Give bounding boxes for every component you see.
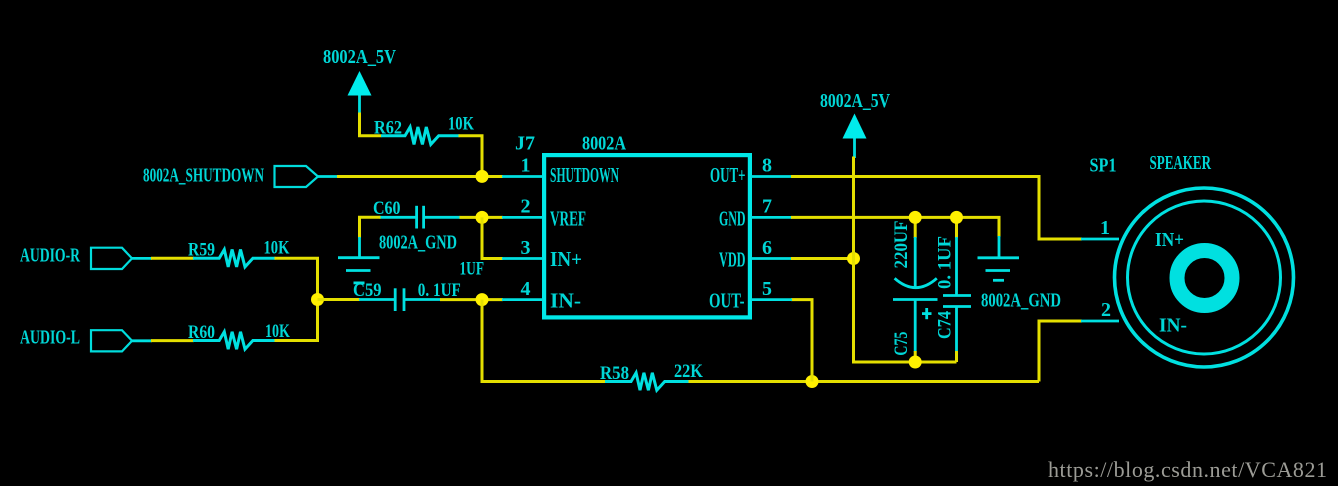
svg-text:OUT+: OUT+	[710, 163, 746, 187]
svg-text:C75: C75	[891, 332, 912, 356]
resistor R62	[381, 127, 460, 144]
svg-text:R59: R59	[188, 240, 215, 261]
wire pin 5 down to OUT- net	[791, 300, 812, 382]
wire pin2 junction down to pin 3	[482, 217, 503, 258]
svg-text:OUT-: OUT-	[709, 289, 745, 313]
svg-text:8: 8	[762, 155, 772, 177]
svg-text:8002A_GND: 8002A_GND	[379, 232, 457, 254]
pin 1 SHUTDOWN	[502, 155, 619, 187]
svg-text:R62: R62	[374, 118, 402, 139]
svg-text:AUDIO-L: AUDIO-L	[20, 327, 80, 349]
svg-text:SP1: SP1	[1090, 155, 1117, 177]
speaker SP1	[1115, 188, 1294, 367]
capacitor C74 (0.1UF)	[943, 217, 971, 362]
junction OUT- / R58 node	[806, 375, 819, 388]
svg-text:1: 1	[521, 155, 531, 177]
svg-text:https://blog.csdn.net/VCA821: https://blog.csdn.net/VCA821	[1048, 457, 1327, 482]
wire GND net pin 7 to right ground	[791, 217, 999, 237]
svg-text:SHUTDOWN: SHUTDOWN	[550, 163, 619, 187]
svg-text:VREF: VREF	[550, 207, 586, 231]
svg-text:VDD: VDD	[719, 248, 746, 272]
svg-text:8002A_GND: 8002A_GND	[981, 290, 1061, 312]
svg-text:8002A_5V: 8002A_5V	[820, 90, 890, 112]
svg-text:7: 7	[762, 196, 772, 218]
svg-text:220UF: 220UF	[891, 221, 912, 269]
svg-text:C74: C74	[935, 311, 956, 339]
wire C59 to pin 4	[440, 298, 503, 301]
wire R60 to audio junction	[275, 300, 318, 341]
wire OUT- net to speaker pin 2	[1039, 321, 1082, 382]
junction at pin 4 wire	[476, 293, 489, 306]
svg-text:0. 1UF: 0. 1UF	[418, 280, 461, 301]
junction VDD node	[847, 252, 860, 265]
port 8002A_SHUTDOWN	[275, 166, 339, 187]
wire SHUTDOWN net to pin 1	[337, 175, 503, 178]
svg-text:3: 3	[521, 237, 531, 259]
svg-text:10K: 10K	[448, 114, 474, 135]
wire AUDIO-R to R59	[151, 257, 194, 260]
svg-text:IN-: IN-	[550, 289, 581, 313]
resistor R59	[193, 250, 276, 267]
wire AUDIO-L to R60	[151, 339, 194, 342]
junction at pin 2 wire	[476, 211, 489, 224]
port AUDIO-R	[91, 248, 152, 269]
svg-text:2: 2	[1101, 299, 1111, 321]
svg-text:C59: C59	[353, 280, 382, 301]
junction audio mix node	[311, 293, 324, 306]
wire R62 to pin1 junction	[459, 136, 483, 177]
svg-text:IN-: IN-	[1159, 315, 1187, 337]
wire VDD pin 6 to 5V rail	[791, 257, 854, 260]
svg-text:AUDIO-R: AUDIO-R	[20, 245, 80, 267]
pin 8 OUT+	[710, 155, 792, 187]
svg-text:5: 5	[762, 278, 772, 300]
svg-text:6: 6	[762, 237, 772, 259]
pin 4 IN-	[502, 278, 581, 313]
wire R58 to OUT- net	[689, 380, 1040, 383]
pin 2 VREF	[502, 196, 586, 231]
port AUDIO-L	[91, 330, 152, 351]
pin 1 of SP1	[1081, 217, 1119, 239]
svg-text:8002A_SHUTDOWN: 8002A_SHUTDOWN	[143, 165, 264, 187]
svg-text:0. 1UF: 0. 1UF	[935, 236, 956, 289]
svg-text:8002A: 8002A	[582, 132, 626, 154]
wire C60 to ground	[360, 217, 381, 238]
junction C75 bottom	[909, 356, 922, 369]
pin 3 IN+	[502, 237, 582, 271]
resistor R58	[605, 373, 690, 390]
power symbol 8002A_5V (right)	[843, 114, 867, 159]
resistor R60	[193, 332, 276, 349]
wire 5V stem down to R62 row	[360, 113, 382, 136]
svg-text:J7: J7	[515, 132, 535, 154]
ground 8002A_GND (right)	[978, 236, 1020, 280]
junction C74 top	[950, 211, 963, 224]
wire R59 to audio junction	[275, 258, 318, 299]
wire OUT+ to speaker pin 1	[791, 177, 1082, 240]
IC J7 8002A body	[544, 155, 750, 317]
svg-text:1: 1	[1100, 217, 1110, 239]
ground 8002A_GND (left)	[338, 237, 380, 283]
svg-text:8002A_5V: 8002A_5V	[323, 46, 396, 68]
svg-text:4: 4	[521, 278, 531, 300]
capacitor C60	[380, 206, 461, 229]
pin 5 OUT-	[709, 278, 792, 313]
wire audio junction to C59	[318, 298, 361, 301]
pin 7 GND	[719, 196, 792, 231]
svg-text:IN+: IN+	[550, 247, 582, 271]
pin 2 of SP1	[1081, 299, 1119, 321]
svg-text:R58: R58	[600, 363, 629, 384]
wire 5V rail vertical and bottom to caps	[854, 157, 957, 363]
power symbol 8002A_5V (left)	[348, 71, 372, 114]
svg-text:IN+: IN+	[1155, 229, 1184, 251]
svg-text:SPEAKER: SPEAKER	[1150, 152, 1212, 174]
svg-text:GND: GND	[719, 207, 746, 231]
svg-text:10K: 10K	[264, 238, 290, 259]
capacitor C75 (220UF electrolytic)	[893, 217, 938, 362]
svg-text:22K: 22K	[674, 361, 703, 382]
capacitor C59	[359, 288, 441, 311]
svg-text:R60: R60	[188, 322, 215, 343]
junction C75 top	[909, 211, 922, 224]
wire pin4 junction down to feedback net	[482, 300, 606, 382]
junction at pin 1 wire	[476, 170, 489, 183]
svg-text:10K: 10K	[265, 321, 290, 342]
svg-text:1UF: 1UF	[460, 259, 485, 280]
wire C60 right to pin 2	[460, 216, 504, 219]
pin 6 VDD	[719, 237, 792, 272]
svg-text:2: 2	[521, 196, 531, 218]
